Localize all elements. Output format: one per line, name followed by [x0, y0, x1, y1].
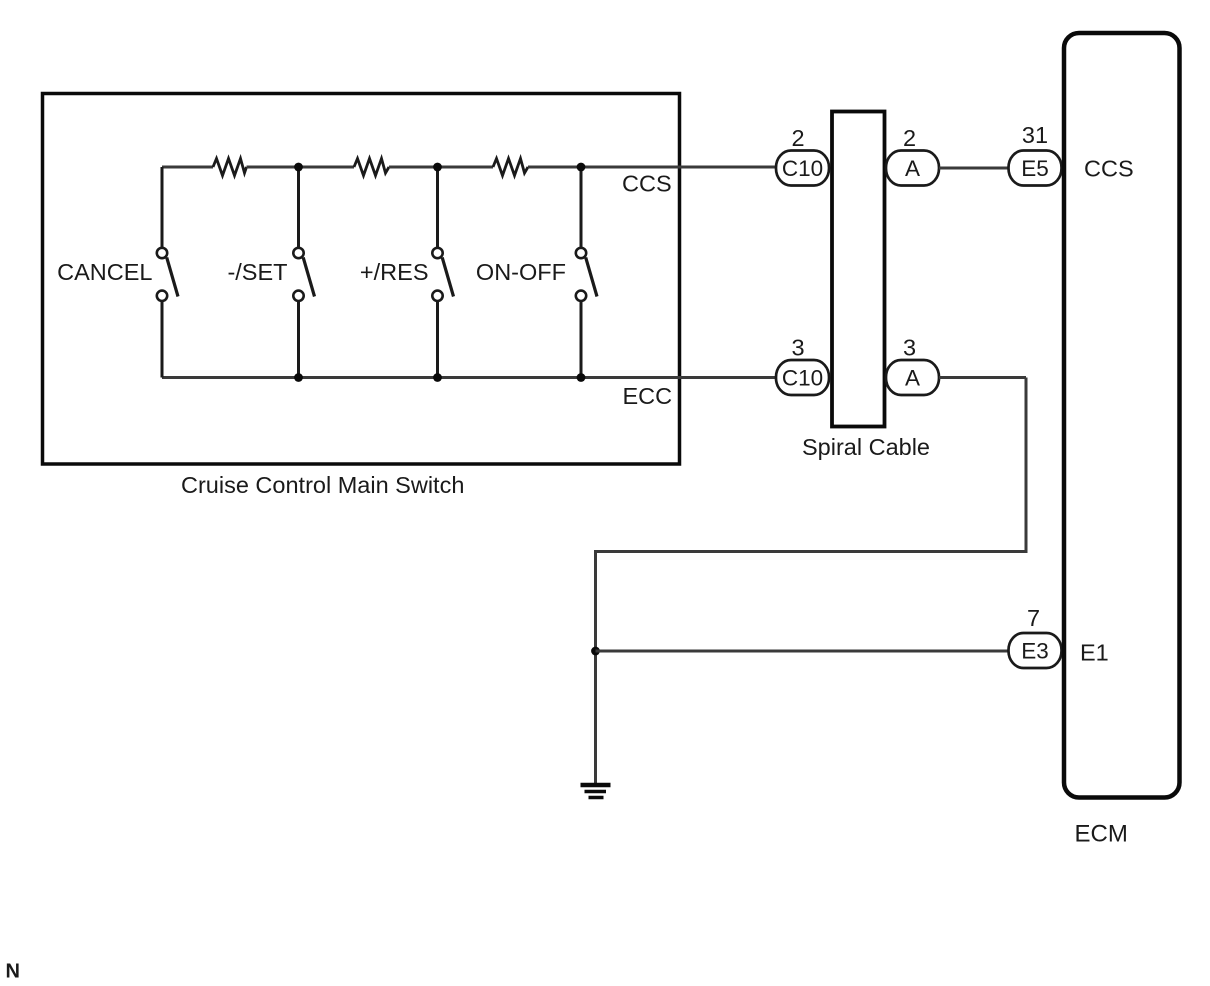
- resistor R3: [493, 159, 528, 176]
- svg-text:A: A: [905, 156, 920, 181]
- connector E5 pin 31 oval: [1009, 151, 1062, 186]
- switch +/RES: [432, 167, 453, 378]
- svg-text:E5: E5: [1021, 156, 1049, 181]
- connector C10 pin 3 oval: [776, 360, 829, 395]
- spiral cable body: [832, 112, 885, 427]
- svg-text:C10: C10: [782, 156, 823, 181]
- svg-text:C10: C10: [782, 366, 823, 391]
- wire: A pin 2 to E5 pin 31: [939, 167, 1009, 170]
- switch ON-OFF: [576, 167, 597, 378]
- wire: top bus between R2 and R3: [389, 166, 493, 169]
- ECM connector body: [1064, 33, 1180, 798]
- svg-text:ECM: ECM: [1075, 821, 1128, 848]
- wire: bottom ECC bus out of box to connector C10 pin 3: [162, 376, 777, 379]
- box: Cruise Control Main Switch enclosure: [43, 94, 680, 465]
- svg-text:Cruise Control Main Switch: Cruise Control Main Switch: [181, 472, 464, 498]
- svg-text:ECC: ECC: [623, 383, 673, 409]
- wire: top bus from R3 out of box to connector C10 pin 2: [528, 166, 777, 169]
- switch CANCEL: [157, 167, 178, 378]
- svg-text:E1: E1: [1080, 640, 1109, 666]
- svg-text:3: 3: [903, 335, 916, 361]
- wire: top bus between R1 and R2: [247, 166, 355, 169]
- junction: bottom bus at -/SET: [294, 373, 303, 382]
- svg-text:N: N: [6, 961, 20, 983]
- junction: ground column to E3: [591, 647, 600, 656]
- wire: junction to E3 pin 7: [596, 650, 1009, 653]
- junction: top bus at ON-OFF: [577, 163, 586, 172]
- svg-text:2: 2: [903, 125, 916, 151]
- ground: [581, 785, 611, 798]
- svg-text:ON-OFF: ON-OFF: [476, 259, 566, 285]
- junction: bottom bus at ON-OFF: [577, 373, 586, 382]
- svg-text:Spiral Cable: Spiral Cable: [802, 434, 930, 460]
- wire: horizontal run to ground column: [596, 550, 1028, 553]
- svg-text:3: 3: [791, 335, 804, 361]
- junction: top bus at +/RES: [433, 163, 442, 172]
- connector A pin 3 oval: [886, 360, 939, 395]
- svg-text:7: 7: [1027, 605, 1040, 631]
- svg-text:E3: E3: [1021, 639, 1049, 664]
- connector E3 pin 7 oval: [1009, 633, 1062, 668]
- svg-text:CCS: CCS: [1084, 156, 1134, 182]
- wire: top CCS bus segment left: [162, 166, 213, 169]
- svg-text:+/RES: +/RES: [360, 259, 429, 285]
- connector C10 pin 2 oval: [776, 151, 829, 186]
- resistor R1: [213, 159, 247, 176]
- switch -/SET: [293, 167, 314, 378]
- svg-text:2: 2: [791, 125, 804, 151]
- junction: bottom bus at +/RES: [433, 373, 442, 382]
- wire: A pin 3 rightward: [939, 376, 1026, 379]
- wire: down from A pin 3 run: [1025, 378, 1028, 552]
- junction: top bus at -/SET: [294, 163, 303, 172]
- svg-text:CANCEL: CANCEL: [57, 259, 152, 285]
- wire: ground column down: [594, 550, 597, 783]
- resistor R2: [354, 159, 389, 176]
- svg-text:31: 31: [1022, 122, 1048, 148]
- svg-text:CCS: CCS: [622, 171, 672, 197]
- connector A pin 2 oval: [886, 151, 939, 186]
- svg-text:A: A: [905, 366, 920, 391]
- svg-text:-/SET: -/SET: [227, 259, 287, 285]
